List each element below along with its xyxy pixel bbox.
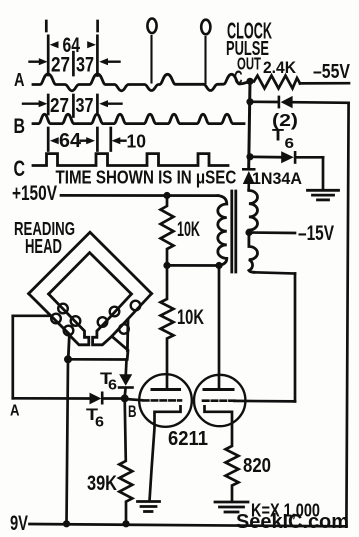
svg-text:A: A — [10, 403, 19, 420]
svg-text:1N34A: 1N34A — [252, 169, 302, 189]
svg-text:27: 27 — [51, 53, 70, 77]
svg-text:39K: 39K — [87, 471, 117, 494]
svg-text:6: 6 — [95, 414, 104, 430]
svg-text:10K: 10K — [177, 217, 200, 241]
svg-text:C: C — [14, 158, 26, 182]
svg-text:37: 37 — [76, 94, 94, 116]
svg-text:C: C — [234, 68, 243, 88]
svg-text:HEAD: HEAD — [25, 235, 62, 257]
svg-text:6: 6 — [285, 135, 295, 152]
svg-text:820: 820 — [243, 454, 271, 477]
svg-text:T: T — [272, 125, 285, 144]
svg-text:+150V: +150V — [12, 181, 58, 205]
svg-text:10: 10 — [127, 131, 147, 152]
svg-text:6: 6 — [108, 377, 117, 393]
svg-text:–55V: –55V — [313, 60, 350, 82]
svg-text:64: 64 — [59, 130, 81, 152]
svg-text:–15V: –15V — [298, 221, 335, 245]
svg-text:10K: 10K — [177, 305, 204, 328]
svg-text:2.4K: 2.4K — [263, 58, 296, 77]
svg-text:6211: 6211 — [168, 428, 208, 450]
svg-text:27: 27 — [50, 94, 69, 117]
svg-text:TIME SHOWN IS IN μSEC: TIME SHOWN IS IN μSEC — [56, 167, 237, 188]
svg-text:37: 37 — [76, 53, 94, 77]
svg-text:9V: 9V — [10, 511, 28, 534]
svg-text:B: B — [14, 114, 25, 138]
svg-text:B: B — [128, 403, 137, 422]
svg-text:A: A — [14, 69, 24, 90]
svg-text:SeekIC.com: SeekIC.com — [236, 511, 349, 533]
